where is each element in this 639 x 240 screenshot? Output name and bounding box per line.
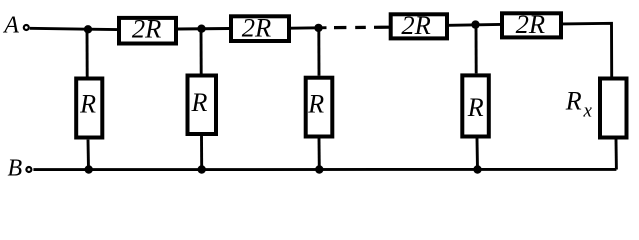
resistor Rx bbox=[565, 79, 627, 138]
resistor R #3 (vertical) bbox=[306, 28, 333, 170]
node: top junction 3 bbox=[314, 24, 322, 32]
node: top junction 4 bbox=[471, 20, 479, 28]
resistor R #2 (vertical) bbox=[188, 29, 217, 170]
bottom rail wire B to Rx corner bbox=[33, 168, 616, 171]
node: bottom junction 4 bbox=[473, 165, 481, 173]
resistor 2R #2 bbox=[231, 12, 289, 42]
resistor 2R #3 bbox=[391, 10, 447, 40]
node: bottom junction 2 bbox=[198, 165, 206, 173]
resistor R #4 (vertical) bbox=[462, 25, 489, 170]
svg-text:R: R bbox=[191, 88, 208, 117]
wire: dashed continuation (dash 3, lead into 2R #3) bbox=[374, 26, 389, 29]
node: bottom junction 1 bbox=[85, 165, 93, 173]
svg-text:2R: 2R bbox=[401, 10, 430, 40]
node: top junction 2 bbox=[197, 25, 205, 33]
svg-text:x: x bbox=[583, 101, 593, 122]
wire 2R#3 to 2R#4 bbox=[449, 23, 500, 27]
wire: dashed continuation (dash 2) bbox=[355, 26, 366, 29]
svg-text:2R: 2R bbox=[516, 9, 545, 39]
svg-text:A: A bbox=[2, 13, 19, 39]
resistor 2R #4 bbox=[502, 9, 561, 39]
wire A to first 2R box (top rail left) bbox=[30, 28, 117, 29]
svg-text:R: R bbox=[467, 93, 484, 122]
resistor R #1 (vertical) bbox=[76, 29, 102, 169]
svg-text:R: R bbox=[307, 90, 324, 119]
svg-text:R: R bbox=[79, 89, 96, 118]
svg-text:2R: 2R bbox=[242, 12, 271, 42]
wire: dashed continuation (dash 1) bbox=[334, 26, 346, 29]
terminal B (open circle) bbox=[26, 167, 31, 172]
resistor 2R #1 bbox=[119, 14, 176, 44]
wire 2R#1 to 2R#2 bbox=[178, 27, 229, 30]
node: bottom junction 3 bbox=[315, 165, 323, 173]
svg-text:B: B bbox=[8, 156, 23, 182]
terminal A (open circle) bbox=[24, 25, 29, 30]
svg-text:2R: 2R bbox=[132, 14, 161, 44]
wire Rx bottom to bottom rail corner bbox=[615, 140, 618, 170]
wire 2R#4 to right corner and down to Rx bbox=[563, 23, 612, 76]
wire 2R#2 to top junction 3 bbox=[291, 26, 327, 29]
node: top junction 1 bbox=[84, 25, 92, 33]
svg-text:R: R bbox=[565, 86, 582, 115]
